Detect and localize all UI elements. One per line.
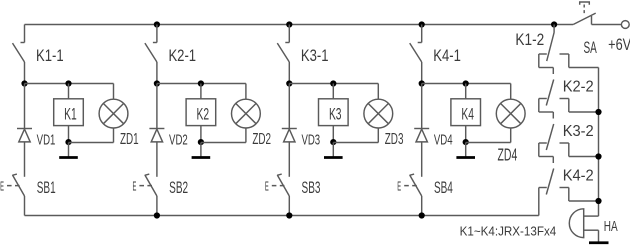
wire [465,126,467,143]
ground [589,241,609,244]
ground [456,143,475,158]
diode VD1 [17,129,32,142]
node junction below coil K1 [65,139,71,145]
svg-text:E: E [397,180,401,194]
pushbutton SB4 [404,174,422,196]
wire [510,84,512,100]
wire [25,83,114,85]
svg-text:K4-2: K4-2 [563,167,594,185]
wire [24,196,26,216]
svg-text:K3-2: K3-2 [563,122,594,140]
relay coil K3 [319,99,349,126]
lamp ZD2 [232,99,261,128]
wire [332,126,334,143]
pushbutton SB1 [7,174,25,196]
node junction coil branch 4 [463,80,469,86]
diode VD3 [282,129,297,142]
svg-text:+6V: +6V [608,35,630,54]
diode VD2 [149,129,164,142]
relay contact K4-2 [539,157,569,195]
svg-text:E: E [265,180,269,194]
svg-text:SB3: SB3 [302,177,321,196]
wire [200,84,202,99]
wire [421,84,423,129]
node HA bus junction K4-2 [595,198,601,204]
ground [192,143,211,158]
relay contact K1-1 [13,25,25,63]
wire [288,62,290,84]
terminal +6V [621,21,629,29]
wire [377,84,379,100]
svg-text:K1-1: K1-1 [36,47,64,66]
wire [288,196,290,216]
wire [422,83,511,85]
wire left throw down [538,143,540,157]
node junction coil branch 3 [330,80,336,86]
wire jog to next contact [539,67,554,69]
wire [113,84,115,100]
node junction coil branch 2 [198,80,204,86]
wire [24,142,26,177]
ground [59,143,78,158]
relay coil K2 [186,99,216,126]
relay contact K2-2 [539,68,569,106]
node HA bus junction K3-2 [595,153,601,159]
switch SA [573,2,596,25]
wire [245,128,247,143]
diode VD4 [414,129,429,142]
wire HA bus vertical [598,68,600,217]
wire left throw down [538,54,540,68]
svg-text:ZD3: ZD3 [385,130,404,148]
wire SA to terminal [592,24,622,26]
svg-text:E: E [0,180,4,194]
wire right throw jog to HA bus [569,156,599,158]
wire [156,196,158,216]
wire HA to ground [598,230,600,242]
relay contact K1-2 [539,33,569,62]
wire [466,142,511,144]
wire [24,84,26,129]
wire [332,84,334,99]
wire [156,62,158,84]
svg-text:ZD1: ZD1 [120,130,139,148]
lamp ZD4 [496,99,525,128]
node bottom bus junction [419,212,425,218]
svg-text:VD4: VD4 [434,131,453,148]
svg-text:ZD4: ZD4 [498,146,518,165]
svg-text:SB2: SB2 [169,177,188,196]
svg-text:VD3: VD3 [301,131,320,148]
wire [200,126,202,143]
wire [288,142,290,177]
wire [465,84,467,99]
node top bus junction [286,21,292,27]
relay coil K1 [54,99,84,126]
wire jog to next contact [539,111,554,113]
svg-text:SB4: SB4 [434,177,453,196]
svg-text:VD2: VD2 [169,131,188,148]
node bottom bus junction [286,212,292,218]
node top bus junction [551,21,557,27]
svg-text:K1-2: K1-2 [515,31,544,50]
wire [156,142,158,177]
wire [68,84,70,99]
svg-text:SA: SA [583,38,596,56]
node junction below coil K2 [198,139,204,145]
relay coil K4 [451,99,481,126]
svg-text:HA: HA [604,218,618,234]
node bottom bus junction [154,212,160,218]
relay contact K4-1 [410,25,422,63]
wire [157,83,246,85]
wire [421,196,423,216]
node junction rail section 4 [419,80,425,86]
lamp ZD3 [364,99,393,128]
svg-text:E: E [133,180,137,194]
wire right throw down [568,188,570,202]
node top bus junction [154,21,160,27]
ground [324,143,343,158]
node junction below coil K4 [463,139,469,145]
wire bottom common bus [25,215,539,217]
svg-text:ZD2: ZD2 [252,130,271,148]
node junction below coil K3 [330,139,336,145]
svg-text:K2-2: K2-2 [563,78,594,96]
wire [510,128,512,143]
svg-text:K1~K4:JRX-13Fx4: K1~K4:JRX-13Fx4 [460,224,557,239]
wire top bus node to K1-2 [553,25,555,33]
wire [288,84,290,129]
wire right throw down [568,99,570,113]
svg-text:K3-1: K3-1 [301,47,329,66]
wire [289,83,378,85]
wire right throw jog to HA bus [569,67,599,69]
wire [201,142,246,144]
relay contact K3-1 [277,25,289,63]
node junction rail section 1 [21,80,27,86]
svg-text:K2-1: K2-1 [168,47,196,66]
wire [421,62,423,84]
node junction coil branch 1 [65,80,71,86]
wire [113,128,115,143]
wire right throw down [568,143,570,157]
wire right throw down [568,54,570,68]
svg-text:K1: K1 [64,104,77,123]
wire top +6V bus [25,24,574,26]
wire [245,84,247,100]
svg-text:K4: K4 [461,104,474,123]
node top bus junction [419,21,425,27]
wire [69,142,114,144]
svg-text:K3: K3 [329,104,342,123]
node junction rail section 2 [154,80,160,86]
wire [68,126,70,143]
wire left throw down [538,188,540,216]
svg-text:K4-1: K4-1 [433,47,461,66]
svg-text:VD1: VD1 [37,131,56,148]
wire [377,128,379,143]
pushbutton SB2 [139,174,157,196]
wire left throw down [538,99,540,113]
pushbutton SB3 [272,174,290,196]
buzzer HA [569,209,598,238]
wire [156,84,158,129]
wire [333,142,378,144]
lamp ZD1 [99,99,128,128]
svg-text:SB1: SB1 [37,177,56,196]
wire [24,62,26,84]
node HA bus junction K2-2 [595,109,601,115]
wire [421,142,423,177]
relay contact K3-2 [539,112,569,150]
relay contact K2-1 [145,25,157,63]
svg-text:K2: K2 [197,104,210,123]
wire right throw jog to HA bus [569,200,599,202]
node junction rail section 3 [286,80,292,86]
wire right throw jog to HA bus [569,111,599,113]
wire jog to next contact [539,156,554,158]
